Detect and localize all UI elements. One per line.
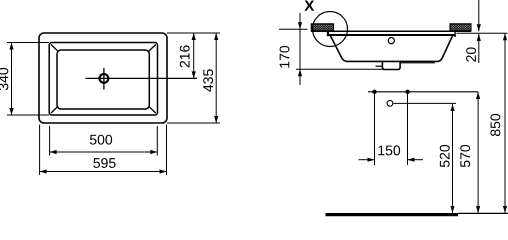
drain horizontal centerline / 216 extension xyxy=(86,77,198,79)
trap outlet hole xyxy=(387,100,393,106)
dim 850 label xyxy=(490,114,500,136)
corner bevel TL xyxy=(51,44,58,51)
dim 500 extension left xyxy=(49,126,51,156)
dim 850 line xyxy=(504,33,506,213)
dim 216 label xyxy=(180,45,190,67)
dim 500 arrow left xyxy=(50,150,57,154)
dim 340 arrow up xyxy=(9,43,13,50)
dim 520 arrow up xyxy=(450,104,454,111)
bowl under-ledge left xyxy=(376,65,383,67)
ceramic rim line xyxy=(328,34,456,36)
dim 150 line right xyxy=(408,159,424,161)
rim right end stub xyxy=(454,32,456,38)
inner rim rect xyxy=(49,43,157,116)
dim 170 extension top xyxy=(279,28,308,30)
overflow hole xyxy=(388,38,394,44)
dim 500 extension right xyxy=(156,126,158,156)
dim 340 line xyxy=(11,43,13,116)
dim 20 label xyxy=(466,47,476,61)
outer rim rect xyxy=(39,33,167,123)
dim 500 arrow right xyxy=(150,150,157,154)
dim 850 arrow down xyxy=(503,206,507,213)
dim 520 arrow down xyxy=(450,206,454,213)
dim 340 label xyxy=(0,68,8,90)
dim 595 line xyxy=(40,171,167,173)
rim level extension line right xyxy=(457,32,508,34)
dim 150 label xyxy=(378,145,400,155)
dim 170 arrow up xyxy=(298,69,302,76)
corner bevel BL xyxy=(51,106,58,113)
dim 570 label xyxy=(460,145,470,167)
dim 435 arrow down xyxy=(214,116,218,123)
dim 170 extension bottom / boss level line xyxy=(296,68,383,70)
dim 595 extension left xyxy=(39,125,41,176)
dim 170 arrow down xyxy=(298,22,302,29)
dim 150 line left xyxy=(359,159,375,161)
extension vertical right xyxy=(407,92,409,165)
dim 435 arrow up xyxy=(214,33,218,40)
dim 150 arrow left-pointing xyxy=(408,158,415,162)
dim 595 extension right xyxy=(166,125,168,176)
dim 20 upper line xyxy=(478,0,480,31)
drain hole xyxy=(100,74,109,83)
floor line thin xyxy=(458,212,508,214)
worktop underside line xyxy=(311,30,471,32)
dim 570 arrow up xyxy=(476,92,480,99)
extension vertical left xyxy=(374,92,376,165)
dim 20 arrow down xyxy=(477,24,481,31)
trap outlet level extension xyxy=(394,102,456,104)
dim 340 arrow down xyxy=(9,108,13,115)
dim 216 arrow up xyxy=(192,33,196,40)
dim 595 label xyxy=(93,158,115,168)
fixing node right xyxy=(405,90,409,94)
basin bowl outline xyxy=(330,35,452,61)
dim 595 arrow right xyxy=(160,169,167,173)
dim 216/435 extension top xyxy=(167,32,220,34)
dim 170 line xyxy=(299,13,301,85)
basin floor rect xyxy=(57,50,149,109)
dim 340 extension bottom xyxy=(7,114,49,116)
dim 216 line xyxy=(193,33,195,78)
dim 20 arrow up xyxy=(477,34,481,41)
dim 570 arrow down xyxy=(476,206,480,213)
dim 340 extension top xyxy=(7,42,49,44)
dim 850 arrow up xyxy=(503,33,507,40)
worktop hatched section right xyxy=(450,24,471,31)
corner bevel BR xyxy=(149,106,156,113)
dim 150 arrow right-pointing xyxy=(368,158,375,162)
rim left end stub xyxy=(327,31,329,36)
fixing holes level line xyxy=(368,91,478,93)
dim 500 label xyxy=(90,135,112,145)
floor line thick xyxy=(326,213,459,216)
dim 435 line xyxy=(215,33,217,123)
dim 570 line xyxy=(477,92,479,213)
dim 595 arrow left xyxy=(40,169,47,173)
dim 435 extension bottom xyxy=(167,122,220,124)
drain vertical centerline xyxy=(103,68,105,90)
drain boss xyxy=(382,61,400,70)
fixing node left xyxy=(372,90,376,94)
corner bevel TR xyxy=(149,44,156,51)
dim 520 line xyxy=(452,104,454,213)
dim 20 lower line xyxy=(478,34,480,63)
dim 216 arrow down xyxy=(192,71,196,78)
label X xyxy=(304,0,314,10)
dim 500 line xyxy=(50,151,158,153)
dim 170 label xyxy=(280,46,290,68)
dim 435 label xyxy=(203,69,213,91)
worktop hatched section left xyxy=(311,24,333,31)
dim 520 label xyxy=(440,145,450,167)
detail callout circle X xyxy=(313,12,348,47)
bowl second contour right xyxy=(400,62,435,64)
